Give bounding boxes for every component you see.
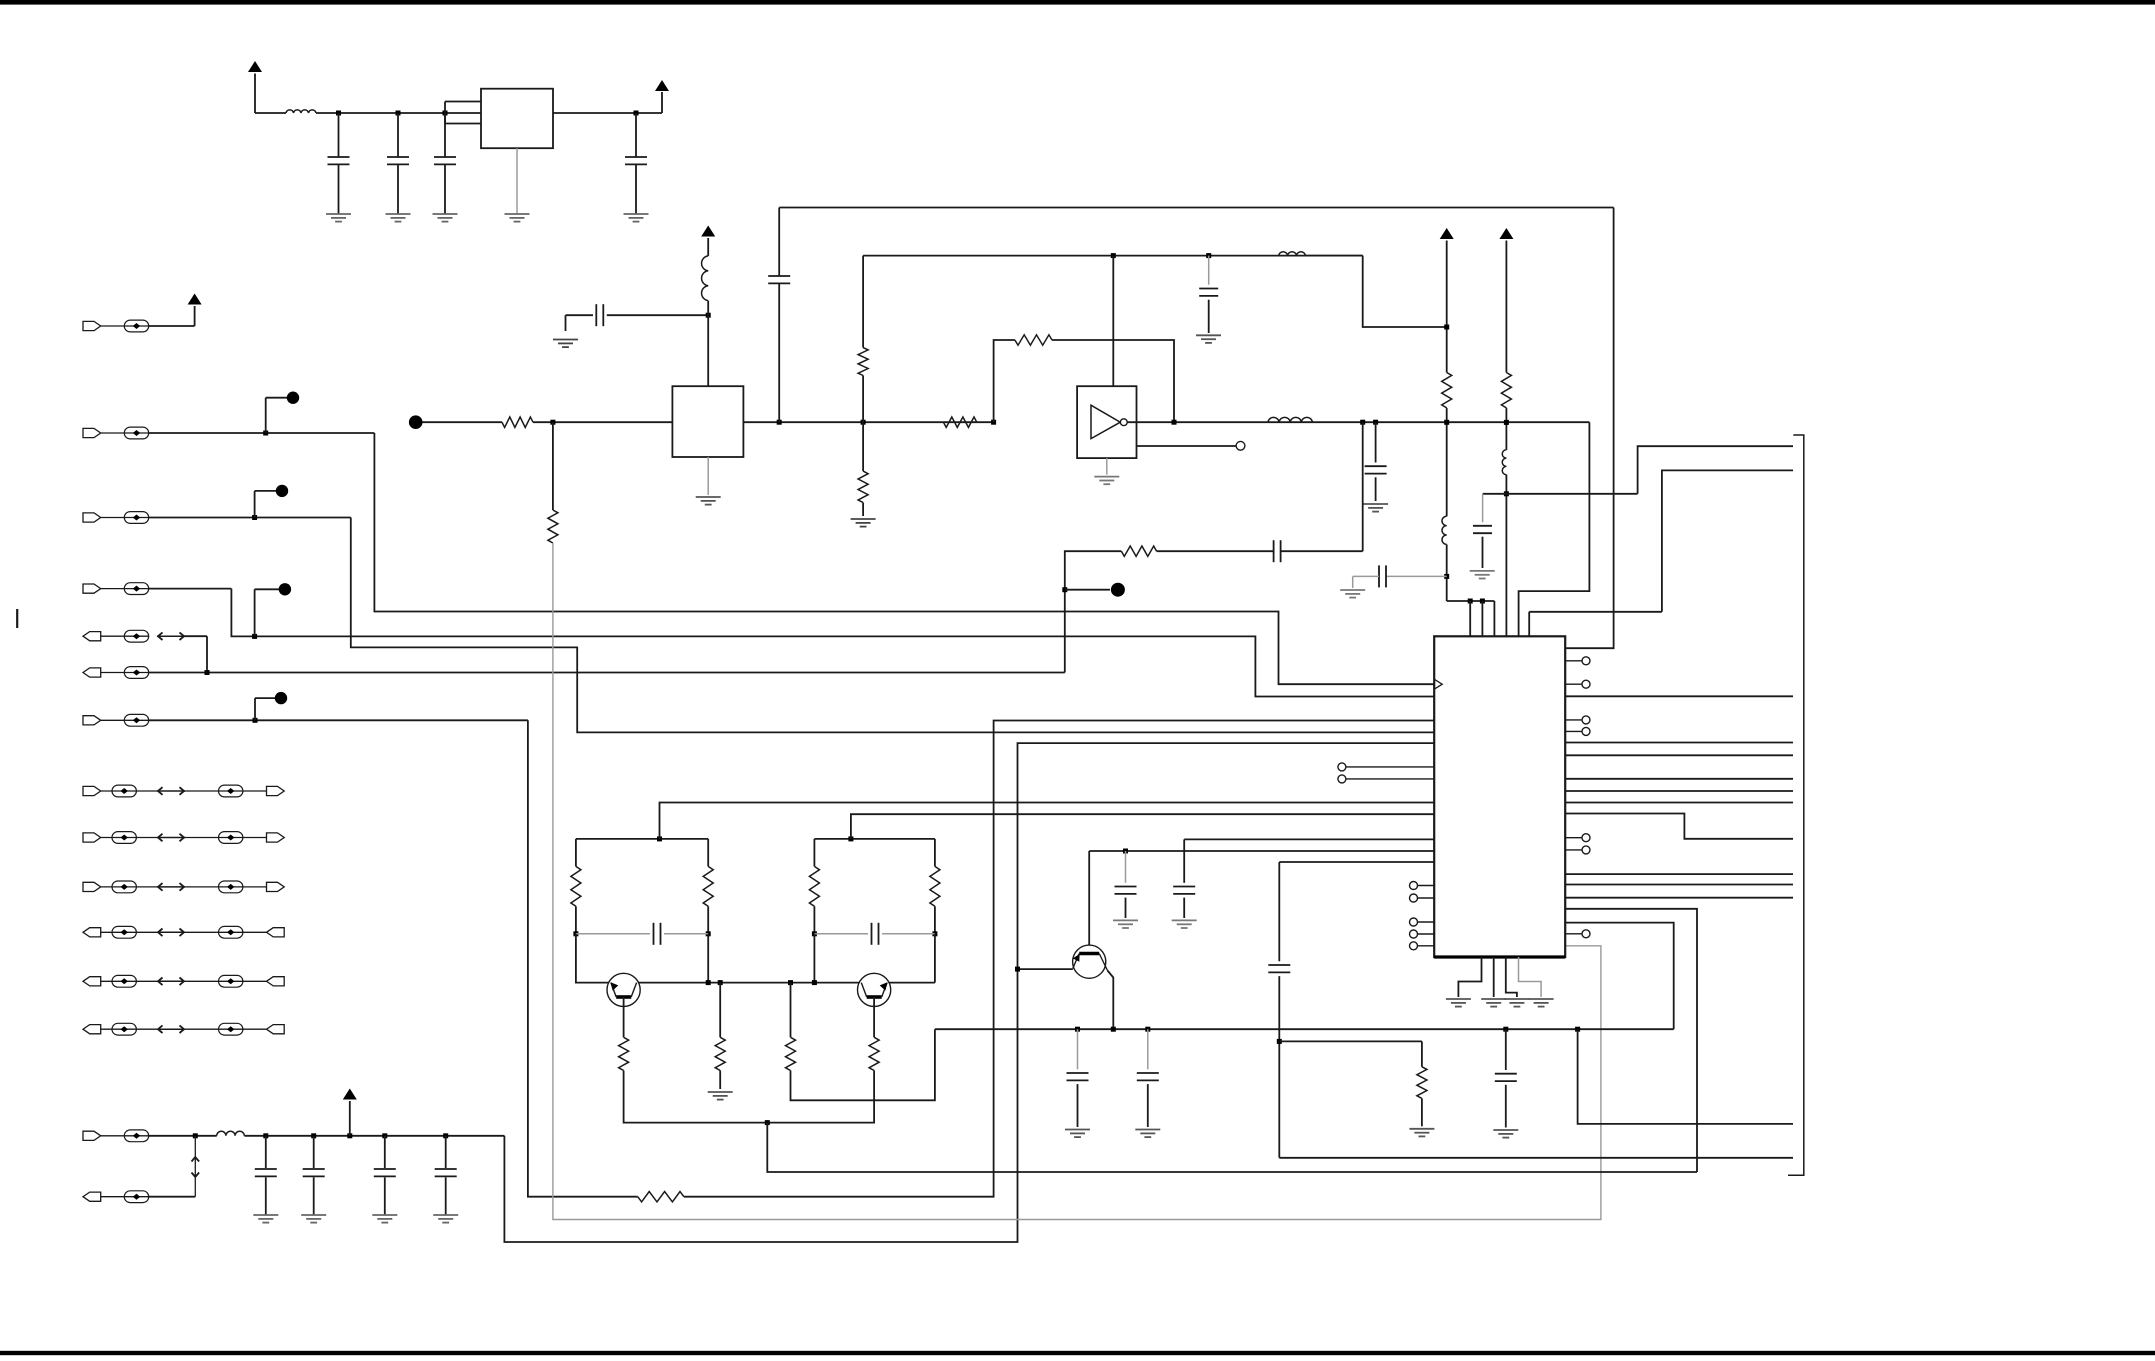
ground (253, 1214, 278, 1216)
coupling capacitor (778, 283, 780, 422)
net wire (231, 589, 1434, 697)
Q2 collector diag (861, 983, 866, 997)
bypass line (1483, 493, 1638, 495)
open circle pin (1236, 441, 1245, 450)
inductor L6 (1442, 516, 1447, 544)
IC pin circle (1410, 882, 1418, 890)
wire (1281, 550, 1363, 552)
res branch line (1279, 1040, 1422, 1042)
resistor R5 (1121, 546, 1156, 556)
junction (443, 111, 448, 116)
IC pin circle (1410, 942, 1418, 950)
IC right pin circle (1582, 716, 1590, 724)
bidir arrow (157, 635, 185, 637)
tank2 right leg (934, 839, 936, 867)
pin wire (1565, 837, 1582, 839)
junction (765, 1120, 770, 1125)
inverter bubble (1120, 419, 1127, 426)
inverter ground stub (1106, 458, 1108, 475)
clock pin symbol (1434, 679, 1442, 689)
tank2 cap (871, 923, 873, 945)
pin wire (1418, 897, 1435, 899)
Q3 bar (1079, 952, 1099, 955)
junction (1468, 599, 1473, 604)
wire (533, 421, 672, 423)
net wire (767, 1123, 1697, 1172)
ground (1172, 919, 1197, 921)
net wire (528, 720, 638, 1196)
regulator U1 (481, 89, 553, 149)
ground (505, 213, 530, 215)
left margin tick (16, 609, 18, 628)
ground (1340, 589, 1365, 591)
junction (1373, 420, 1378, 425)
power arrow VA (1440, 228, 1454, 239)
pin wire (1565, 660, 1582, 662)
ground (372, 1214, 397, 1216)
ground (301, 1214, 326, 1216)
junction (1503, 1027, 1508, 1032)
junction (634, 111, 639, 116)
U2 input wire (422, 421, 502, 423)
line pin20 (1184, 838, 1434, 840)
ground (1135, 1129, 1160, 1131)
bus riser (1638, 446, 1793, 494)
tank1 mid rail (576, 933, 650, 935)
bus riser 2 (1662, 470, 1793, 611)
junction (1123, 849, 1128, 854)
IC right pin circle (1582, 834, 1590, 842)
ground (1493, 1129, 1518, 1131)
testpoint dot (276, 485, 288, 497)
feedback wire (994, 340, 1015, 422)
ground (326, 213, 351, 215)
osc line (863, 255, 1363, 257)
pin wire (1418, 933, 1435, 935)
down arrowhead (192, 1173, 200, 1178)
connector J3 (101, 517, 149, 519)
resistor (809, 866, 819, 906)
bus cap 3 (1505, 1029, 1507, 1070)
divider resistor R2 (552, 422, 554, 510)
resistor R6 (1442, 373, 1452, 408)
pin elbow wires U1 (444, 102, 446, 124)
bus wire (1565, 754, 1793, 756)
bus wire (1565, 873, 1793, 875)
tank1 right leg (707, 839, 709, 867)
wire to bus (791, 1029, 935, 1100)
bus wire (1565, 778, 1793, 780)
pin6 feed (1529, 611, 1662, 613)
ground (1113, 919, 1138, 921)
junction (788, 980, 793, 985)
junction (861, 420, 866, 425)
junction (706, 313, 711, 318)
pin wire (1418, 945, 1435, 947)
inductor L3 (702, 256, 709, 301)
Q3 arrow (1073, 954, 1080, 962)
connector J1 (101, 325, 149, 327)
IC pin circle (1338, 775, 1346, 783)
Q2 bar (867, 995, 882, 999)
wire main rail (316, 112, 481, 114)
net wire (1065, 551, 1122, 672)
Q3 emitter wire (1108, 971, 1114, 1030)
feedback wire (1052, 340, 1174, 422)
ground (1196, 334, 1221, 336)
inverter top pin (1112, 256, 1114, 387)
IC gnd pin 1 (1458, 957, 1481, 997)
junction (932, 931, 937, 936)
diff pair connectors row 11 (101, 931, 158, 933)
osc rail right (887, 982, 935, 984)
junction (396, 111, 401, 116)
capacitor (384, 1136, 386, 1168)
diff pair connectors row 10 (101, 886, 158, 888)
wire (184, 635, 207, 637)
J1 wire to power (149, 325, 195, 327)
junction (252, 515, 257, 520)
Q2 arrow (880, 982, 888, 990)
power arrow VDD1 (248, 61, 262, 72)
feedback resistor R4 (1015, 335, 1052, 345)
resistor (703, 866, 713, 906)
bus wire (1565, 790, 1793, 792)
cap to ground (1482, 494, 1484, 523)
pin wire (1418, 885, 1435, 887)
Q3 collector wire (1088, 851, 1090, 954)
wire (707, 934, 709, 983)
IC U4 (1434, 636, 1565, 957)
wire (1446, 545, 1448, 602)
capacitor C4 (635, 113, 637, 157)
power arrow (701, 226, 715, 237)
junction (1360, 420, 1365, 425)
pin wire (1565, 683, 1582, 685)
wire top bus corner (1565, 208, 1613, 649)
junction (1444, 420, 1449, 425)
line pin21 (1089, 850, 1434, 852)
Q2 stem (873, 997, 875, 1038)
connector J7 (101, 719, 149, 721)
net step (1578, 1029, 1793, 1124)
junction (1575, 1027, 1580, 1032)
net wire (351, 518, 1434, 733)
bias resistor upper (862, 256, 864, 348)
resistor R9 (1421, 1041, 1423, 1066)
tank1 top rail (576, 838, 708, 840)
up arrowhead (192, 1157, 200, 1162)
stepped bus wire (1565, 814, 1793, 839)
cap branch (1125, 851, 1127, 883)
bus wire (1565, 742, 1793, 744)
pin wire (1565, 730, 1582, 732)
power arrow VB (1499, 228, 1513, 239)
testpoint stub (1065, 589, 1110, 591)
junction (1172, 420, 1177, 425)
line pin22 (1279, 861, 1434, 863)
inverter triangle (1091, 405, 1120, 438)
junction (1062, 587, 1067, 592)
ground (1504, 998, 1529, 1000)
wire (934, 934, 936, 983)
diff pair connectors row 13 (101, 1028, 158, 1030)
bottom border bar (0, 1351, 2155, 1355)
ground (1065, 1129, 1090, 1131)
junction (1206, 253, 1211, 258)
tank2 left leg (813, 839, 815, 867)
junction (657, 836, 662, 841)
cap from ground (565, 315, 567, 331)
diff pair connectors row 8 (101, 790, 158, 792)
bus cap 1 (1077, 1029, 1079, 1069)
ground (1363, 503, 1388, 505)
capacitor C2 (397, 113, 399, 157)
cap to ground (1208, 256, 1210, 285)
ground (851, 518, 876, 520)
cap to ground (1375, 422, 1377, 462)
Q1 bar (616, 995, 631, 999)
bus wire (1565, 695, 1793, 697)
testpoint stub (254, 698, 256, 720)
resistor (930, 866, 940, 906)
junction (443, 1133, 448, 1138)
IC pin circle (1338, 763, 1346, 771)
ground (1446, 998, 1471, 1000)
connector J5 (101, 635, 149, 637)
top border bar (0, 0, 2155, 5)
pin wire (1346, 778, 1434, 780)
U2 output wire (743, 421, 993, 423)
tank1 cap (653, 923, 655, 945)
diff pair connectors row 12 (101, 980, 158, 982)
bus bracket (1788, 435, 1804, 1175)
junction (848, 836, 853, 841)
IC pin circle (1410, 918, 1418, 926)
inductor L5 (1268, 417, 1312, 422)
wire (1446, 408, 1448, 516)
main bus (935, 1028, 1674, 1030)
junction (336, 111, 341, 116)
wire (1505, 408, 1507, 450)
bus wire (1565, 897, 1793, 899)
series resistor R3 (943, 417, 976, 427)
resistor R7 (638, 1192, 684, 1202)
series capacitor (1273, 540, 1275, 562)
pin stub (660, 803, 1435, 839)
IC top pin (1481, 601, 1483, 636)
ground (1529, 998, 1554, 1000)
wire (149, 1135, 217, 1137)
bus wire (1565, 802, 1793, 804)
transistor Q2 (858, 973, 891, 1006)
U2 ground pin (707, 457, 709, 495)
osc rail (637, 982, 862, 984)
aux output (1137, 445, 1236, 447)
Q1 arrow (611, 982, 619, 990)
pin wire (1565, 933, 1582, 935)
power net wire (504, 743, 1434, 1242)
Q1 emitter diag (611, 983, 616, 997)
diff pair connectors row 9 (101, 837, 158, 839)
junction (1444, 574, 1449, 579)
resistor Re1 (619, 1037, 629, 1070)
mixer U2 (672, 386, 743, 457)
IC right pin circle (1582, 846, 1590, 854)
wire (149, 672, 1065, 674)
transistor Q3 (1073, 945, 1106, 978)
junction (347, 1133, 352, 1138)
wire (255, 112, 286, 114)
junction (1111, 1027, 1116, 1032)
ground (386, 213, 411, 215)
inductor L2 (217, 1131, 245, 1136)
Q1 collector diag (631, 983, 636, 997)
inverter U3 (1077, 386, 1136, 458)
decoupling cap (1386, 575, 1447, 577)
pin wire (1565, 719, 1582, 721)
wire (575, 906, 577, 934)
junction (193, 1133, 198, 1138)
wire (934, 906, 936, 934)
wire (813, 934, 815, 983)
clock net wire (374, 433, 1434, 684)
junction (1504, 420, 1509, 425)
power arrow VDD2 (661, 92, 663, 113)
bottom net wire (1279, 1157, 1793, 1159)
IC gnd pin 4 (1519, 957, 1542, 997)
IC pin circle (1410, 894, 1418, 902)
IC right pin circle (1582, 657, 1590, 665)
ground (708, 1091, 733, 1093)
IC top pin (1493, 601, 1495, 636)
wire (707, 301, 709, 316)
wire (707, 906, 709, 934)
ground (1094, 476, 1119, 478)
junction (1504, 491, 1509, 496)
IC pin circle (1410, 930, 1418, 938)
testpoint dot (287, 392, 299, 404)
resistor Re2 (869, 1037, 879, 1070)
junction (991, 420, 996, 425)
capacitor C1 (338, 113, 340, 157)
wire (1505, 475, 1507, 637)
junction (573, 931, 578, 936)
U1 output wire (553, 112, 662, 114)
wire (576, 934, 611, 983)
IC gnd pin 3 (1506, 957, 1517, 997)
resistor (571, 866, 581, 906)
testpoint stub (254, 491, 256, 518)
wire (149, 1196, 196, 1198)
ground (1470, 570, 1495, 572)
IC right pin circle (1582, 680, 1590, 688)
bus cap 2 (1147, 1029, 1149, 1069)
U1 ground pin (516, 148, 518, 214)
output wire (1127, 421, 1589, 423)
resistor R6b (1501, 373, 1511, 408)
IC gnd pin 2 (1493, 957, 1495, 997)
ground (1409, 1128, 1434, 1130)
capacitor (265, 1136, 267, 1168)
Q1 stem (623, 997, 625, 1038)
inductor L1 (286, 110, 316, 113)
wire (149, 432, 375, 434)
junction (253, 718, 258, 723)
junction (1480, 599, 1485, 604)
wire (149, 719, 528, 721)
junction (812, 931, 817, 936)
connector J6 (101, 672, 149, 674)
junction (252, 634, 257, 639)
gray net from R2 (553, 543, 1601, 1220)
tank2 top rail (814, 838, 935, 840)
Q2 emitter diag (882, 983, 887, 997)
ground (624, 213, 649, 215)
pair link (194, 1136, 196, 1197)
testpoint dot (275, 692, 287, 704)
tank1 left leg (575, 839, 577, 867)
junction (550, 420, 555, 425)
junction (718, 980, 723, 985)
pin wire (1346, 766, 1434, 768)
junction (263, 1133, 268, 1138)
IC right pin circle (1582, 727, 1590, 735)
tank2 mid rail (814, 933, 868, 935)
junction (706, 931, 711, 936)
junction (1444, 325, 1449, 330)
pin stub (851, 814, 1434, 839)
input node dot (409, 415, 423, 429)
wire (1306, 255, 1363, 257)
power rail (244, 1135, 504, 1137)
mid resistor (719, 983, 721, 1038)
junction (1277, 1039, 1282, 1044)
wire (149, 588, 232, 590)
ground (696, 496, 721, 498)
junction (1145, 1027, 1150, 1032)
wire (813, 906, 815, 934)
bus wire (1565, 884, 1793, 886)
wire (1157, 550, 1274, 552)
pin5 feed (1519, 422, 1590, 636)
inductor L7 (1502, 450, 1506, 475)
stepped net wire (1565, 909, 1697, 1172)
capacitor (313, 1136, 315, 1168)
IC bottom edge (1434, 955, 1565, 958)
pin wire (1565, 849, 1582, 851)
ground (1481, 998, 1506, 1000)
cap inline (1278, 862, 1280, 961)
junction (777, 420, 782, 425)
pin feed rail (1447, 600, 1495, 602)
connector J2 (101, 432, 149, 434)
wire (624, 1071, 875, 1123)
Q3 base diag (1073, 954, 1079, 969)
junction (1015, 967, 1020, 972)
top bus wire (779, 207, 1613, 209)
stepped net wire (1565, 923, 1674, 1030)
series capacitor (566, 314, 594, 316)
inductor L4 (1279, 252, 1306, 256)
testpoint dot (279, 583, 291, 595)
testpoint dot (1111, 583, 1125, 597)
connector J15 (101, 1196, 149, 1198)
connector J14 (101, 1135, 149, 1137)
ground (433, 1214, 458, 1216)
Q3 base wire (1018, 968, 1073, 970)
power arrow (188, 294, 202, 305)
